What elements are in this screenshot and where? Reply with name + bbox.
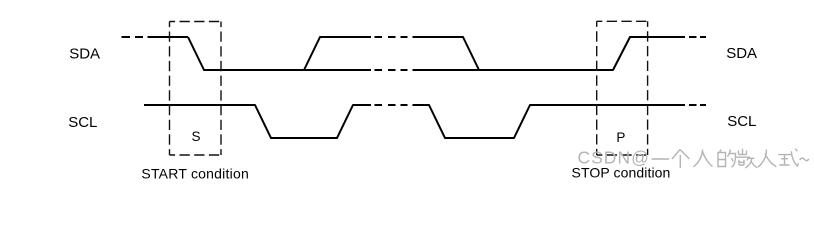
svg-text:S: S (192, 129, 201, 144)
wire SDA high middle dashes (375, 36, 408, 38)
wire SCL rising edge 2 (514, 105, 530, 138)
wire SCL high middle dashes (375, 104, 408, 106)
svg-text:START condition: START condition (141, 166, 249, 180)
wire SCL falling edge 1 (255, 105, 271, 138)
wire SCL low segment 1 (270, 137, 337, 139)
node S START condition dashed box (170, 22, 222, 156)
watermark chinese glyph 嵌 (736, 149, 757, 168)
watermark chinese glyph 式 (778, 149, 798, 166)
wire SDA left dashed stub (122, 36, 144, 38)
wire SDA rising edge (STOP) (613, 37, 630, 70)
wire SDA low middle dashes (375, 69, 408, 71)
svg-text:SCL: SCL (68, 114, 97, 131)
svg-text:CSDN@: CSDN@ (578, 148, 650, 168)
wire SDA right dashed stub (689, 36, 706, 38)
wire SCL low segment 2 (444, 137, 514, 139)
svg-text:SDA: SDA (726, 45, 757, 62)
svg-text:SCL: SCL (727, 113, 756, 130)
wire SCL high segment before middle break (352, 104, 371, 106)
wire SDA high segment after STOP (629, 36, 685, 38)
watermark chinese glyph 个 (672, 150, 690, 169)
watermark glyph ~ (800, 158, 809, 161)
wire SCL falling edge 2 (429, 105, 445, 138)
svg-text:P: P (616, 130, 625, 145)
wire SDA low line left of middle break (203, 69, 371, 71)
wire SDA pulse top right segment (413, 36, 464, 38)
wire SCL rising edge 1 (337, 105, 353, 138)
watermark chinese glyph 的 (718, 150, 736, 168)
wire SDA low line right of middle break (413, 69, 614, 71)
watermark chinese glyph 人 (694, 150, 713, 168)
wire SCL high segment right (529, 104, 685, 106)
wire SDA pulse rising edge (304, 37, 320, 70)
wire SCL right dashed stub (689, 104, 706, 106)
wire SDA high segment into START (148, 36, 189, 38)
wire SDA pulse top left segment (319, 36, 371, 38)
wire SDA pulse falling edge (463, 37, 479, 70)
wire SCL high segment left (144, 104, 256, 106)
wire SCL high segment after middle break (413, 104, 430, 106)
watermark chinese glyph 入 (758, 150, 776, 168)
svg-text:SDA: SDA (69, 45, 100, 62)
watermark chinese glyph 一 (652, 149, 809, 168)
wire SDA falling edge (START) (188, 37, 204, 70)
node P STOP condition dashed box (597, 21, 648, 155)
